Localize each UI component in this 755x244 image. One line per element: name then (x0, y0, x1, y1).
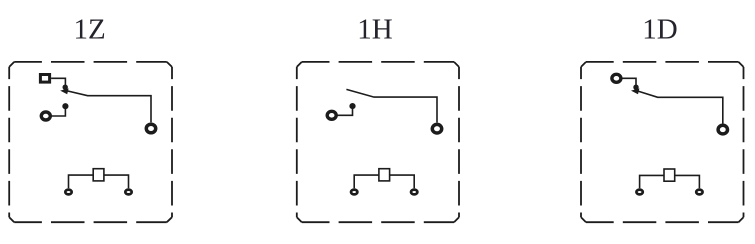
NO fixed contact terminal (circle) (41, 112, 50, 120)
coil left terminal (1H) (351, 190, 357, 195)
svg-text:1H: 1H (357, 13, 393, 45)
NC contact point (dot, 1D) (633, 85, 638, 90)
coil right terminal (1H) (411, 190, 417, 195)
coil left wire (69, 175, 94, 188)
NO contact point (dot, 1H) (349, 103, 355, 109)
enclosure dashed box (relay 1H) (297, 62, 459, 222)
armature arrowhead (1D) (631, 88, 639, 94)
armature (moving contact) wire (1H) (346, 89, 437, 122)
wire from NO terminal to contact point (1H) (337, 109, 352, 115)
coil right wire (1D) (675, 175, 700, 188)
NC fixed contact terminal (circle, 1D) (612, 74, 621, 82)
NC contact point (dot) (62, 85, 67, 90)
NO fixed contact terminal (circle, 1H) (327, 111, 336, 119)
coil (1H) (379, 169, 390, 181)
svg-text:1D: 1D (642, 13, 677, 45)
svg-text:1Z: 1Z (73, 13, 105, 45)
wire from NO terminal to contact point (52, 109, 66, 116)
coil left wire (1H) (354, 175, 379, 188)
enclosure dashed box (relay 1Z) (9, 62, 172, 222)
coil right wire (104, 175, 129, 188)
common terminal (circle, 1D) (718, 125, 727, 134)
coil (1Z) (93, 169, 104, 181)
common terminal (circle) (146, 124, 155, 133)
coil left wire (1D) (640, 175, 664, 188)
NC fixed contact terminal (square) (40, 75, 49, 83)
common terminal (circle, 1H) (432, 124, 441, 133)
armature (moving contact) wire (1D) (634, 90, 723, 124)
wire from NC terminal to contact point (1D) (622, 78, 636, 85)
coil (1D) (664, 169, 675, 181)
NO contact point (dot) (62, 103, 68, 109)
coil right terminal (1D) (696, 190, 702, 195)
coil left terminal (1D) (636, 190, 642, 195)
armature (moving contact) wire (64, 90, 152, 122)
armature arrowhead (60, 88, 68, 94)
enclosure dashed box (relay 1D) (581, 62, 744, 222)
wire from NC square terminal to contact point (51, 78, 65, 85)
coil left terminal (65, 190, 71, 195)
coil right wire (1H) (390, 175, 415, 188)
coil right terminal (125, 190, 131, 195)
